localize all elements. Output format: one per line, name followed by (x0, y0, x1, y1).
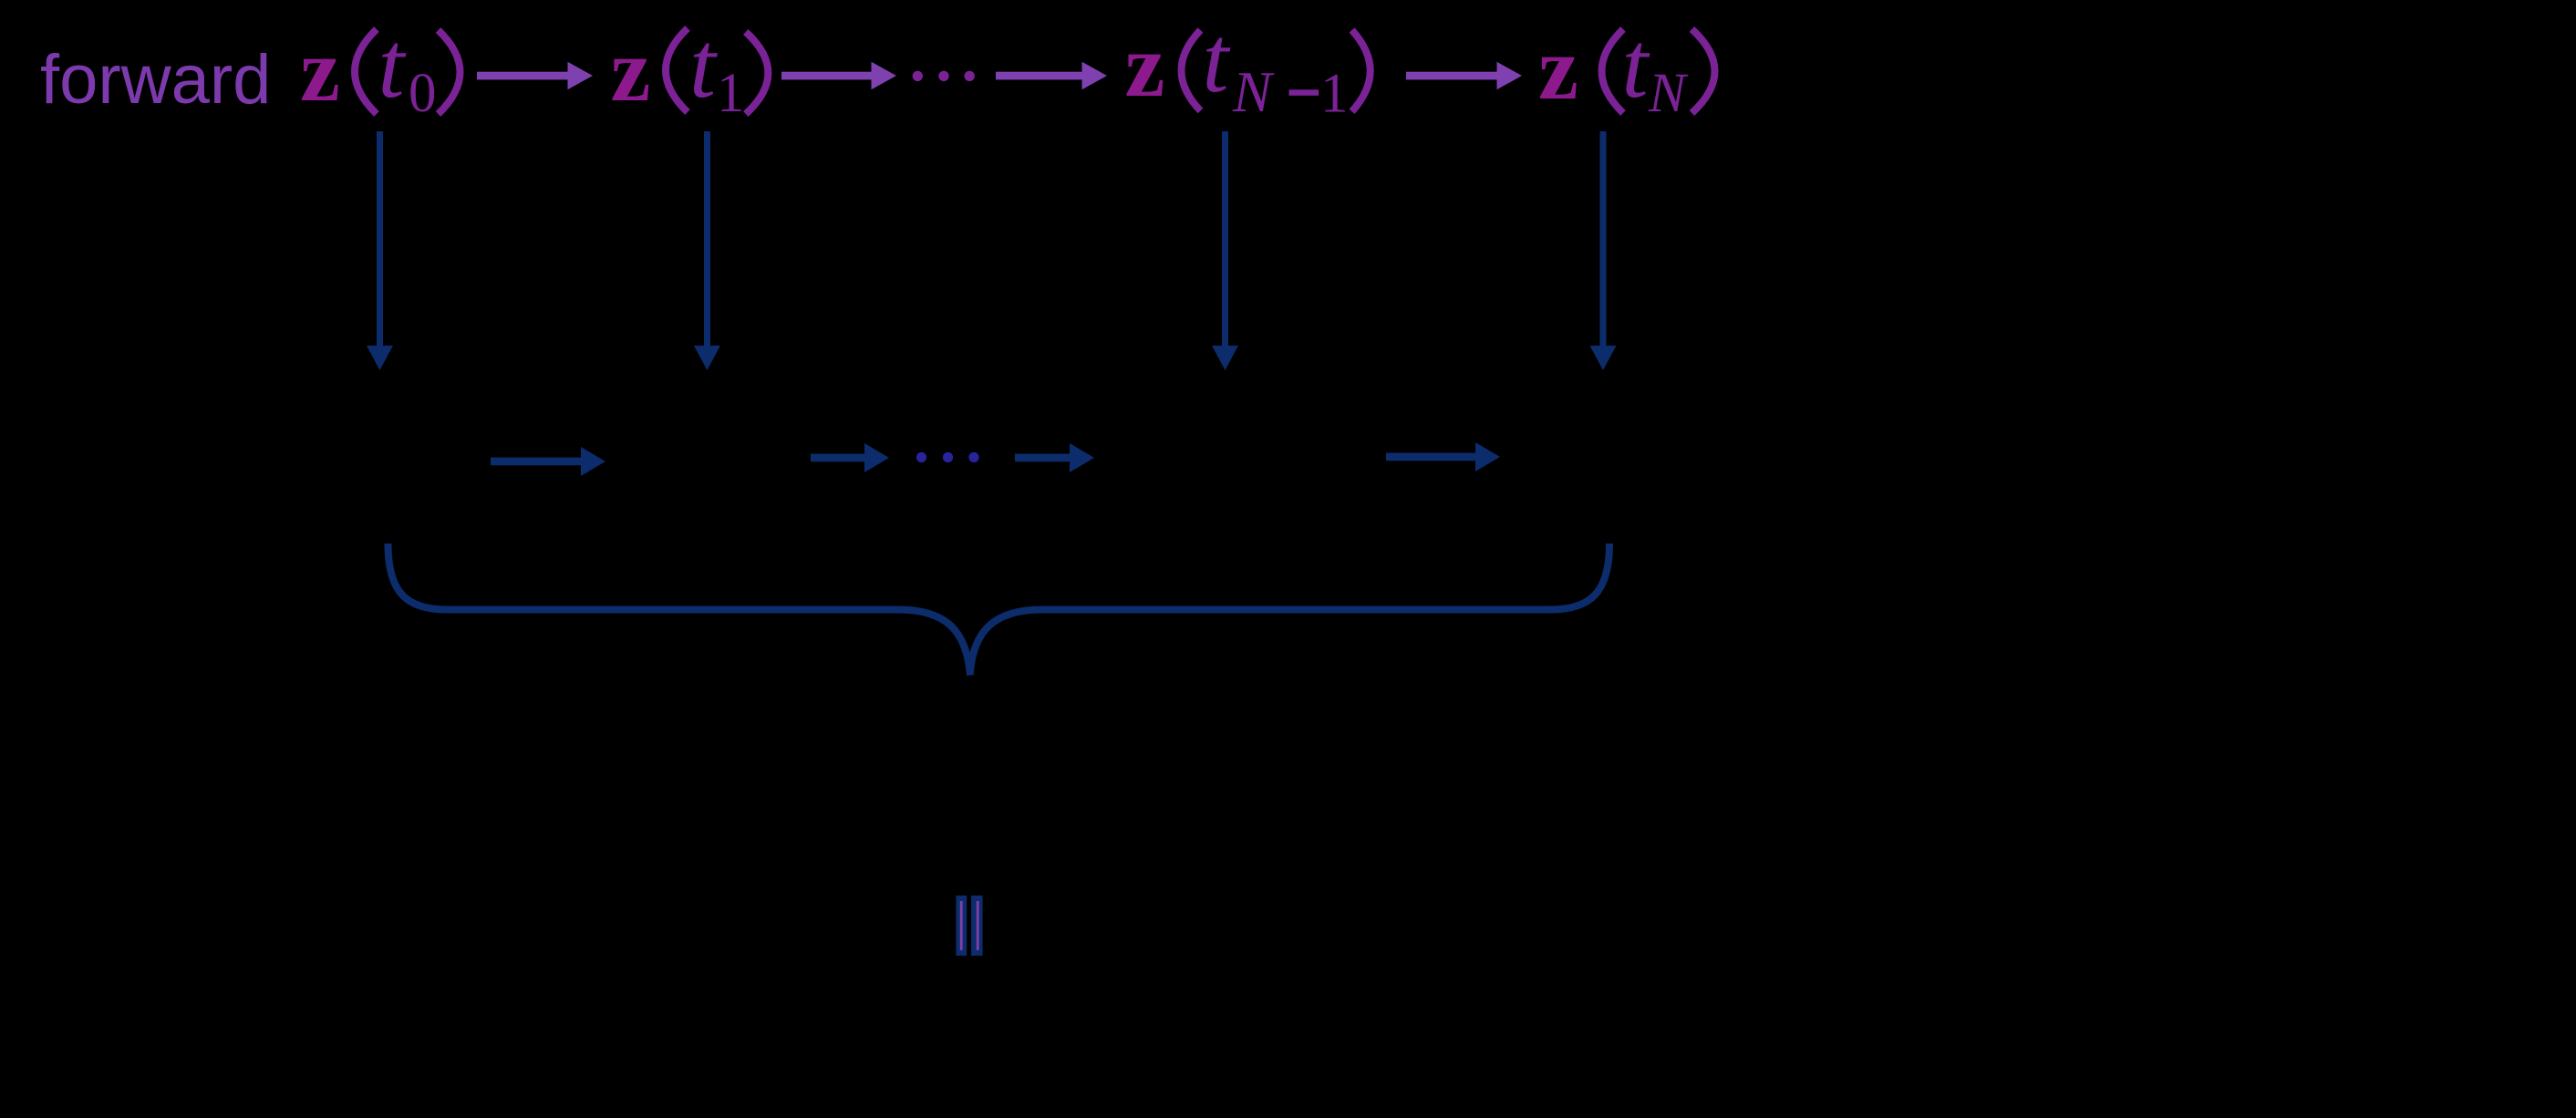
svg-text:z: z (300, 21, 340, 120)
arrow z(t1) to cdots (781, 62, 896, 89)
down arrow from z(tN) (1590, 131, 1617, 370)
node z(tN-1) left paren (1182, 30, 1201, 111)
svg-text:1: 1 (717, 63, 745, 124)
svg-text:1: 1 (1320, 64, 1349, 125)
middle arrow 4 (1386, 442, 1500, 471)
svg-text:t: t (378, 13, 407, 118)
svg-text:t: t (1203, 7, 1231, 112)
svg-text:N: N (1648, 63, 1689, 124)
node z(t1) right paren (746, 32, 769, 114)
down arrow from z(t0) (367, 131, 393, 370)
arrow z(tN-1) to z(tN) (1406, 62, 1522, 89)
svg-text:z: z (1538, 19, 1578, 119)
node z(tN) right paren (1691, 29, 1714, 113)
underbrace (388, 543, 1610, 676)
arrow z(t0) to z(t1) (477, 62, 593, 89)
node z(t1) left paren (666, 28, 688, 112)
svg-text:forward: forward (40, 41, 271, 119)
middle row cdots (blue) (916, 452, 979, 462)
top row cdots (913, 71, 975, 81)
down arrow from z(t1) (694, 131, 720, 370)
middle arrow 2 (811, 443, 889, 472)
node z(tN) left paren (1602, 29, 1624, 113)
down arrow from z(tN-1) (1212, 131, 1238, 370)
equals sign inner purple lines (960, 901, 979, 950)
equals sign (rotated), navy bars (956, 895, 982, 956)
svg-text:t: t (689, 13, 718, 118)
svg-text:N: N (1232, 59, 1275, 124)
svg-text:z: z (611, 21, 651, 120)
svg-text:0: 0 (409, 63, 437, 124)
node z(t0) left paren (355, 29, 377, 114)
middle arrow 1 (491, 447, 605, 476)
arrow cdots to z(tN-1) (996, 62, 1107, 89)
node z(tN-1) right paren (1352, 30, 1371, 111)
svg-text:t: t (1622, 13, 1650, 118)
node z(tN-1) subscript minus (1289, 89, 1319, 96)
node z(t0) right paren (439, 30, 460, 114)
middle arrow 3 (1015, 443, 1094, 472)
svg-text:z: z (1125, 16, 1165, 116)
